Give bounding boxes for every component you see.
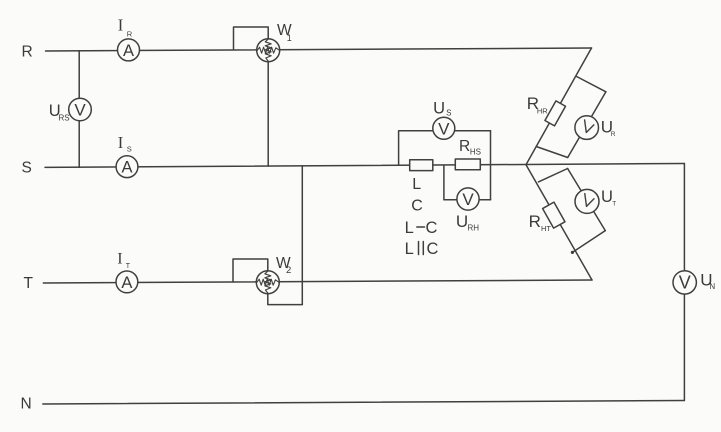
wire T diagonal branch <box>526 165 592 280</box>
svg-text:T: T <box>24 275 34 292</box>
svg-text:T: T <box>126 263 131 270</box>
ammeter IR <box>118 16 140 61</box>
svg-text:HS: HS <box>470 147 481 156</box>
svg-text:U: U <box>433 100 445 118</box>
voltmeter US loop wire <box>399 131 491 200</box>
wire R line <box>46 48 592 51</box>
svg-text:R: R <box>127 29 133 38</box>
svg-text:V: V <box>462 190 474 209</box>
wattmeter W1 <box>234 22 293 166</box>
svg-text:C: C <box>426 219 438 237</box>
load label L-C <box>405 219 438 237</box>
svg-text:N: N <box>709 282 715 291</box>
svg-text:S: S <box>22 160 32 177</box>
resistor RHR <box>527 94 566 126</box>
voltmeter URS <box>49 98 91 122</box>
svg-text:I: I <box>118 16 124 35</box>
resistor RHS <box>455 138 481 170</box>
voltmeter UT branch wires <box>538 169 605 253</box>
svg-text:A: A <box>121 159 132 177</box>
svg-text:C: C <box>427 240 439 258</box>
voltmeter UT <box>575 188 616 213</box>
wire N line <box>43 401 685 405</box>
voltmeter UR <box>575 116 616 140</box>
junction node on T diagonal <box>571 251 574 254</box>
wire S line <box>45 164 684 168</box>
W2 voltage loop wire <box>268 166 303 305</box>
svg-text:RS: RS <box>59 114 70 123</box>
voltmeter UR branch wires <box>536 77 606 158</box>
W1 body <box>257 39 280 62</box>
resistor RHT <box>529 202 565 233</box>
svg-text:A: A <box>121 274 132 292</box>
svg-text:R: R <box>459 138 470 155</box>
svg-text:R: R <box>22 44 33 61</box>
svg-text:S: S <box>127 144 132 153</box>
voltmeter US <box>433 100 455 140</box>
svg-text:V: V <box>74 101 86 120</box>
svg-text:RH: RH <box>468 224 480 233</box>
svg-text:HT: HT <box>541 224 551 233</box>
svg-text:T: T <box>612 200 616 207</box>
svg-text:L: L <box>405 240 414 258</box>
W2 current loop <box>233 259 268 282</box>
svg-text:V: V <box>679 273 691 293</box>
voltmeter URH <box>456 188 479 233</box>
W1 voltage tap wire <box>267 62 269 166</box>
svg-text:C: C <box>411 198 423 215</box>
svg-text:U: U <box>601 188 613 206</box>
ammeter IS <box>116 133 138 178</box>
W2 body <box>256 271 279 294</box>
voltmeter UN <box>673 271 715 294</box>
wire R diagonal branch <box>526 48 592 165</box>
wattmeter W2 <box>233 166 302 305</box>
svg-text:R: R <box>529 212 541 231</box>
voltmeter URH loop wire <box>444 166 491 200</box>
W1 current loop <box>234 27 269 50</box>
svg-text:L: L <box>412 176 421 193</box>
svg-text:HR: HR <box>537 107 548 116</box>
svg-text:L: L <box>405 219 414 237</box>
ammeter IT <box>116 251 138 293</box>
inductor L load box <box>410 160 433 215</box>
wire right vertical S to N <box>683 164 685 401</box>
svg-text:N: N <box>21 396 32 413</box>
svg-text:V: V <box>438 119 450 138</box>
load label L parallel C <box>405 240 439 258</box>
svg-text:1: 1 <box>287 33 292 43</box>
svg-text:2: 2 <box>286 265 291 276</box>
svg-text:A: A <box>123 42 134 60</box>
wire T line <box>43 280 592 283</box>
svg-text:I: I <box>117 251 122 268</box>
svg-text:I: I <box>118 133 124 152</box>
wire URS branch <box>78 51 80 167</box>
svg-text:R: R <box>611 131 616 138</box>
svg-text:S: S <box>446 109 451 118</box>
svg-text:U: U <box>456 212 468 231</box>
